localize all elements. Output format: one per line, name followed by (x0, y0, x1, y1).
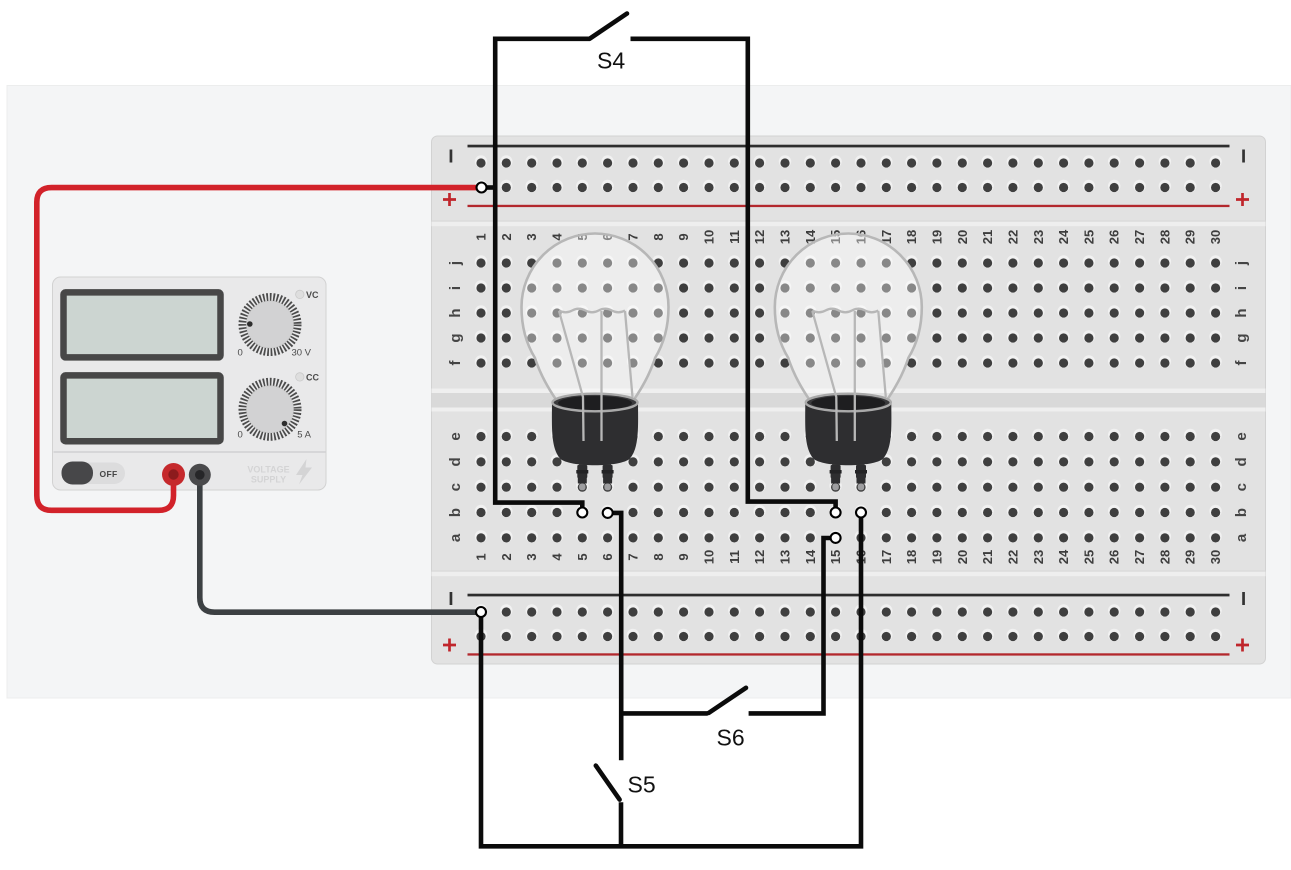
svg-text:2: 2 (499, 233, 514, 240)
light bulb pin L1-c6 (603, 465, 613, 478)
svg-text:27: 27 (1132, 230, 1147, 244)
svg-text:d: d (447, 457, 464, 466)
svg-text:h: h (447, 308, 464, 317)
PS1 VC indicator (296, 290, 304, 298)
svg-text:j: j (447, 261, 464, 266)
svg-text:OFF: OFF (100, 469, 118, 479)
PS1 CC indicator (296, 373, 304, 381)
svg-text:30: 30 (1208, 550, 1223, 564)
svg-text:3: 3 (524, 553, 539, 560)
svg-text:6: 6 (600, 553, 615, 560)
svg-text:d: d (1233, 457, 1250, 466)
svg-text:1: 1 (474, 233, 489, 240)
breadboard groove upper (432, 221, 1266, 222)
svg-text:26: 26 (1107, 550, 1122, 564)
rail polarity marks (450, 150, 453, 163)
switch S6 lever (709, 688, 746, 713)
wire: S6 branch from S5 wire (621, 711, 708, 716)
svg-text:19: 19 (929, 550, 944, 564)
breadboard body (432, 136, 1266, 664)
svg-text:10: 10 (702, 230, 717, 244)
svg-text:h: h (1233, 308, 1250, 317)
light bulb L2 glass (775, 234, 922, 402)
node b6 bulb L1 (603, 508, 613, 518)
svg-text:b: b (447, 508, 464, 517)
PS1 voltage display (64, 292, 221, 357)
svg-text:30: 30 (1208, 230, 1223, 244)
wire: S4 right down to bulb L2 (b15) (631, 39, 836, 513)
power supply PS1 body (53, 277, 327, 490)
svg-text:13: 13 (778, 230, 793, 244)
svg-text:5: 5 (575, 553, 590, 560)
svg-text:25: 25 (1081, 550, 1096, 564)
svg-text:4: 4 (550, 233, 565, 241)
switch S4 lever (590, 14, 628, 39)
svg-text:18: 18 (904, 550, 919, 564)
PS1 power toggle OFF (62, 463, 126, 485)
svg-text:S4: S4 (597, 48, 625, 74)
light bulb L1 glass (522, 234, 669, 402)
svg-text:25: 25 (1081, 230, 1096, 244)
svg-text:22: 22 (1005, 230, 1020, 244)
svg-text:4: 4 (550, 553, 565, 561)
red wire: PS1 positive terminal to top rail + (37, 188, 482, 511)
svg-text:g: g (447, 333, 464, 342)
wire: b6 down to switch S5 (608, 513, 622, 760)
black wire: PS1 negative terminal to bottom rail - (200, 474, 481, 612)
svg-text:12: 12 (752, 550, 767, 564)
svg-text:S6: S6 (717, 725, 745, 751)
svg-text:g: g (1233, 333, 1250, 342)
svg-text:22: 22 (1005, 550, 1020, 564)
bottom rail negative line (468, 594, 1230, 597)
node bottom rail negative col1 (476, 607, 486, 617)
svg-text:a: a (1233, 533, 1250, 542)
svg-text:i: i (447, 286, 464, 290)
top rail negative line (468, 145, 1230, 148)
light bulb L1 socket (552, 403, 638, 466)
svg-text:9: 9 (676, 553, 691, 560)
svg-text:21: 21 (980, 550, 995, 564)
svg-text:29: 29 (1183, 230, 1198, 244)
PS1 lightning icon (296, 459, 312, 485)
svg-text:30 V: 30 V (291, 348, 311, 359)
svg-text:12: 12 (752, 230, 767, 244)
svg-text:j: j (1233, 261, 1250, 266)
svg-text:10: 10 (702, 550, 717, 564)
PS1 current knob (243, 382, 298, 437)
svg-text:27: 27 (1132, 550, 1147, 564)
svg-text:e: e (1233, 432, 1250, 440)
wire: S6 right to a15 (749, 538, 836, 713)
svg-text:CC: CC (306, 373, 319, 383)
svg-text:c: c (1233, 483, 1250, 491)
svg-text:23: 23 (1031, 230, 1046, 244)
svg-text:19: 19 (929, 230, 944, 244)
svg-text:c: c (447, 483, 464, 491)
svg-text:e: e (447, 432, 464, 440)
svg-text:VOLTAGE: VOLTAGE (247, 465, 289, 475)
node b16 bulb L2 (856, 508, 866, 518)
PS1 negative terminal (189, 464, 211, 486)
svg-text:28: 28 (1157, 550, 1172, 564)
svg-text:29: 29 (1183, 550, 1198, 564)
light bulb L2 filament (812, 309, 886, 441)
workplane background panel (7, 86, 1291, 699)
svg-text:5 A: 5 A (297, 430, 311, 441)
svg-text:20: 20 (955, 550, 970, 564)
light bulb L2 socket (805, 403, 891, 466)
PS1 separator (54, 451, 326, 453)
svg-text:21: 21 (980, 230, 995, 244)
breadboard center channel (432, 389, 1266, 412)
svg-text:11: 11 (727, 550, 742, 564)
svg-text:13: 13 (778, 550, 793, 564)
svg-text:26: 26 (1107, 230, 1122, 244)
svg-text:17: 17 (879, 550, 894, 564)
svg-text:14: 14 (803, 549, 818, 564)
svg-text:24: 24 (1056, 229, 1071, 244)
node top rail positive col1 (477, 183, 487, 193)
svg-text:1: 1 (474, 553, 489, 560)
svg-text:S5: S5 (628, 772, 656, 798)
svg-text:VC: VC (306, 290, 319, 300)
wire: + rail to S4 left, down to bulb L1 (b5) (482, 185, 496, 190)
svg-text:3: 3 (524, 233, 539, 240)
wire: S5 lower contact to bottom wire (619, 802, 624, 846)
svg-text:0: 0 (238, 430, 243, 441)
svg-text:28: 28 (1157, 230, 1172, 244)
svg-text:2: 2 (499, 553, 514, 560)
light bulb pin L2-c15 (831, 465, 841, 478)
svg-text:8: 8 (651, 553, 666, 560)
top rail positive line (468, 205, 1230, 207)
svg-text:24: 24 (1056, 549, 1071, 564)
light bulb pin L1-c5 (577, 465, 587, 478)
breadboard groove lower (432, 571, 1266, 572)
PS1 positive terminal (162, 463, 185, 486)
svg-text:0: 0 (238, 348, 243, 359)
svg-text:18: 18 (904, 230, 919, 244)
svg-text:15: 15 (828, 550, 843, 564)
PS1 voltage knob (243, 297, 298, 352)
svg-text:7: 7 (626, 553, 641, 560)
light bulb pin L2-c16 (856, 465, 866, 478)
svg-text:SUPPLY: SUPPLY (251, 475, 286, 485)
wire: bottom loop (- rail, bottom run, riser to b16) (481, 513, 861, 847)
node b15 bulb L2 (831, 508, 841, 518)
PS1 current display (64, 375, 221, 441)
svg-text:8: 8 (651, 233, 666, 240)
svg-text:11: 11 (727, 230, 742, 244)
light bulb L1 filament (559, 309, 633, 441)
svg-text:9: 9 (676, 233, 691, 240)
node a15 (831, 533, 841, 543)
svg-text:20: 20 (955, 230, 970, 244)
svg-text:i: i (1233, 286, 1250, 290)
bottom rail positive line (468, 653, 1230, 655)
svg-text:a: a (447, 533, 464, 542)
svg-text:23: 23 (1031, 550, 1046, 564)
svg-text:b: b (1233, 508, 1250, 517)
node b5 bulb L1 (577, 508, 587, 518)
switch S5 lever (596, 766, 620, 800)
